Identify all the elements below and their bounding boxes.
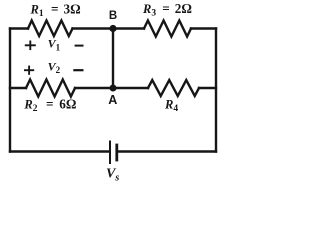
node B junction dot	[109, 25, 116, 32]
wire: node A to R4	[113, 87, 148, 89]
node A junction dot	[110, 85, 117, 92]
svg-text:R3=2Ω: R3=2Ω	[142, 1, 192, 19]
svg-text:A: A	[108, 93, 117, 107]
label: Vs source voltage	[106, 167, 119, 184]
label: plus sign of V1	[25, 41, 36, 51]
label: plus sign of V2	[24, 66, 34, 75]
wire: right edge of loop	[215, 29, 217, 152]
label: node A	[108, 93, 117, 107]
resistor R3	[144, 21, 191, 37]
svg-text:R4: R4	[164, 97, 178, 114]
wire: R1 to node B	[73, 27, 114, 29]
wire: left edge to R2	[10, 87, 26, 89]
label: node B	[109, 10, 117, 22]
label: V2	[48, 59, 61, 75]
wire: R3 to top-right corner	[191, 27, 216, 29]
wire: R4 to right edge	[199, 87, 216, 89]
label: V1	[48, 37, 61, 53]
label: R1 = 3 ohm	[30, 1, 81, 19]
wire: node B to node A	[112, 29, 114, 89]
label: minus sign of V1	[75, 45, 84, 47]
resistor R2	[26, 80, 75, 97]
svg-text:B: B	[109, 10, 117, 22]
wire: R2 to node A	[75, 87, 113, 89]
label: minus sign of V2	[73, 69, 83, 71]
resistor R4	[148, 80, 199, 96]
svg-text:R2=6Ω: R2=6Ω	[23, 96, 76, 114]
svg-text:Vs: Vs	[106, 167, 119, 184]
battery Vs plates	[110, 142, 117, 164]
wire: bottom left to battery	[10, 150, 108, 152]
label: R2 = 6 ohm	[23, 96, 76, 114]
wire: top-left lead to R1	[10, 27, 28, 29]
svg-text:V2: V2	[48, 59, 61, 75]
wire: node B to R3	[113, 27, 144, 29]
resistor R1	[28, 21, 73, 37]
label: R4	[164, 97, 178, 114]
svg-text:R1=3Ω: R1=3Ω	[30, 1, 81, 19]
svg-text:V1: V1	[48, 37, 61, 53]
label: R3 = 2 ohm	[142, 1, 192, 19]
wire: battery to bottom right	[119, 150, 216, 152]
wire: left edge of loop	[9, 29, 11, 152]
